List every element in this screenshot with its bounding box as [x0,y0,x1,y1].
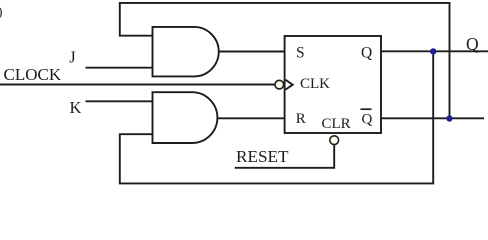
svg-text:K: K [70,98,82,117]
CLR bubble (active-low clear) [330,136,339,145]
clock edge triangle (dynamic input indicator) [286,80,293,90]
clock bubble (active-low clock) [275,80,284,89]
svg-text:CLK: CLK [300,76,330,92]
wire: J input [86,67,153,69]
svg-text:RESET: RESET [236,147,289,166]
AND gate G2 (bottom) [153,92,218,143]
svg-text:J: J [69,48,76,67]
wire: S (G1 output to U1.S) [219,51,285,53]
wire: Q feedback (down right side, bottom loop to AND G2 lower input) [120,51,433,183]
svg-text:): ) [0,4,3,19]
wire: RESET line to CLR bubble [235,145,335,168]
AND gate G1 (top) [153,27,219,77]
svg-text:CLOCK: CLOCK [4,65,62,84]
wire: K input [86,100,153,102]
svg-text:Q: Q [466,34,479,54]
svg-text:S: S [296,45,305,62]
wire: CLOCK line [0,84,275,86]
flip-flop U1 (SR latch body) [285,36,381,133]
svg-text:Q: Q [361,45,372,62]
junction dot on Q-bar line [446,115,452,121]
wire: R (G2 output to U1.R) [217,117,284,119]
svg-text:CLR: CLR [322,116,351,132]
svg-text:Q: Q [362,112,373,128]
wire: Q-bar feedback (top loop to AND G1 upper input) [120,3,450,119]
wire: Q-bar output [381,117,484,119]
junction dot on Q line [430,48,436,54]
wire: Q output [381,50,488,52]
svg-text:R: R [296,111,306,127]
pin label Q-bar [361,109,373,127]
